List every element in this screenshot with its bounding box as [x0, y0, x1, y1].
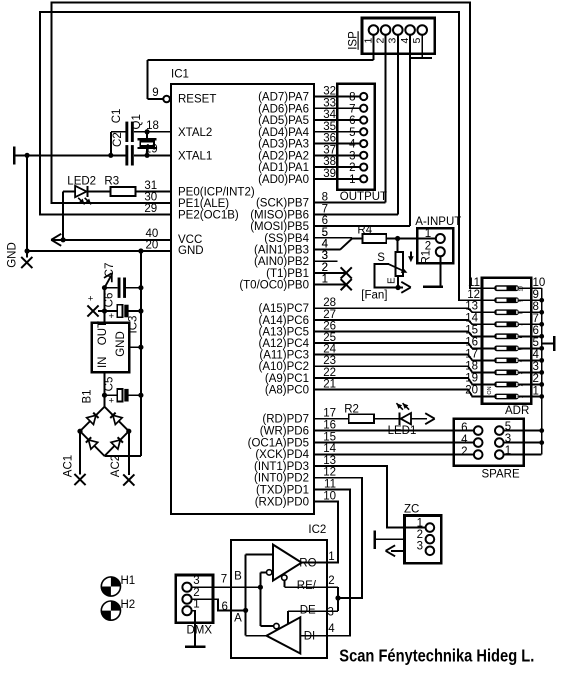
svg-text:(AD5)PA5: (AD5)PA5 — [258, 115, 309, 127]
svg-text:+: + — [88, 294, 94, 305]
svg-text:(AD4)PA4: (AD4)PA4 — [258, 127, 310, 139]
svg-text:(AIN1)PB3: (AIN1)PB3 — [254, 244, 309, 256]
svg-text:(A8)PC0: (A8)PC0 — [265, 384, 309, 396]
svg-text:GND: GND — [7, 242, 19, 268]
svg-text:4: 4 — [533, 349, 540, 361]
svg-text:4: 4 — [322, 238, 329, 250]
svg-text:10: 10 — [533, 277, 546, 289]
svg-text:27: 27 — [323, 309, 336, 321]
svg-text:25: 25 — [323, 332, 336, 344]
svg-text:(AD0)PA0: (AD0)PA0 — [258, 174, 309, 186]
svg-text:(A12)PC4: (A12)PC4 — [259, 338, 310, 350]
svg-text:E: E — [387, 277, 398, 284]
svg-text:19: 19 — [465, 372, 478, 384]
svg-text:IN: IN — [97, 357, 109, 369]
svg-text:5: 5 — [519, 347, 525, 350]
svg-text:AC2: AC2 — [110, 455, 122, 477]
svg-text:PE0(ICP/INT2): PE0(ICP/INT2) — [178, 187, 255, 199]
svg-text:RESET: RESET — [178, 94, 216, 106]
svg-text:(A11)PC3: (A11)PC3 — [259, 350, 309, 362]
svg-text:5: 5 — [349, 127, 355, 139]
svg-text:1: 1 — [193, 599, 199, 611]
svg-text:(INT1)PD3: (INT1)PD3 — [254, 461, 309, 473]
svg-text:DE: DE — [300, 605, 316, 617]
svg-text:SPARE: SPARE — [482, 468, 520, 480]
svg-text:1: 1 — [362, 38, 374, 44]
svg-text:4: 4 — [519, 359, 525, 362]
svg-text:11: 11 — [324, 479, 336, 491]
svg-text:IC3: IC3 — [128, 316, 140, 334]
svg-text:8: 8 — [533, 301, 539, 313]
svg-text:20: 20 — [146, 239, 159, 251]
svg-text:(MOSI)PB5: (MOSI)PB5 — [250, 221, 309, 233]
svg-text:IC2: IC2 — [308, 524, 326, 536]
svg-text:16: 16 — [323, 420, 336, 432]
svg-text:A-INPUT: A-INPUT — [415, 216, 461, 228]
svg-text:DI: DI — [304, 630, 316, 642]
svg-text:+: + — [109, 311, 115, 322]
svg-text:11: 11 — [468, 277, 480, 289]
svg-text:2: 2 — [322, 262, 328, 274]
svg-text:16: 16 — [465, 336, 478, 348]
svg-text:17: 17 — [323, 408, 336, 420]
svg-text:20: 20 — [465, 384, 478, 396]
svg-text:RO: RO — [299, 557, 316, 569]
svg-text:(TXD)PD1: (TXD)PD1 — [256, 485, 309, 497]
svg-text:4: 4 — [328, 623, 335, 635]
svg-text:DMX: DMX — [187, 625, 213, 637]
svg-text:(AD6)PA6: (AD6)PA6 — [258, 103, 309, 115]
svg-text:28: 28 — [323, 297, 336, 309]
svg-text:(SCK)PB7: (SCK)PB7 — [256, 198, 309, 210]
svg-text:ZC: ZC — [404, 504, 419, 516]
svg-text:C5: C5 — [104, 377, 116, 392]
svg-text:XTAL2: XTAL2 — [178, 127, 212, 139]
svg-text:(AD1)PA1: (AD1)PA1 — [258, 162, 309, 174]
svg-text:36: 36 — [323, 133, 336, 145]
svg-text:6: 6 — [322, 215, 328, 227]
svg-text:(A10)PC2: (A10)PC2 — [259, 361, 310, 373]
svg-text:(OC1A)PD5: (OC1A)PD5 — [248, 437, 309, 449]
svg-text:(AD2)PA2: (AD2)PA2 — [258, 150, 309, 162]
svg-text:(RD)PD7: (RD)PD7 — [262, 414, 309, 426]
svg-text:18: 18 — [465, 360, 478, 372]
svg-text:1: 1 — [322, 274, 328, 286]
svg-text:(A15)PC7: (A15)PC7 — [259, 303, 310, 315]
svg-text:C1: C1 — [111, 109, 123, 124]
svg-text:8: 8 — [349, 92, 355, 104]
svg-text:7: 7 — [322, 203, 328, 215]
svg-text:(A9)PC1: (A9)PC1 — [265, 373, 309, 385]
svg-text:ON: ON — [487, 386, 493, 394]
svg-text:[Fan]: [Fan] — [361, 290, 387, 302]
svg-text:R4: R4 — [357, 225, 372, 237]
svg-text:14: 14 — [465, 312, 478, 324]
svg-text:4: 4 — [461, 434, 468, 446]
svg-text:10: 10 — [323, 490, 336, 502]
svg-text:3: 3 — [322, 250, 328, 262]
svg-text:30: 30 — [144, 191, 157, 203]
svg-text:R2: R2 — [344, 403, 359, 415]
svg-text:8: 8 — [519, 311, 525, 314]
svg-text:1: 1 — [519, 395, 525, 398]
svg-text:33: 33 — [323, 97, 336, 109]
svg-text:4: 4 — [349, 139, 356, 151]
svg-text:3: 3 — [328, 607, 334, 619]
svg-text:4: 4 — [399, 38, 411, 44]
svg-text:23: 23 — [323, 355, 336, 367]
svg-text:3: 3 — [193, 575, 199, 587]
svg-text:(XCK)PD4: (XCK)PD4 — [255, 449, 309, 461]
svg-text:24: 24 — [323, 344, 336, 356]
svg-text:(WR)PD6: (WR)PD6 — [260, 426, 309, 438]
svg-text:29: 29 — [144, 203, 157, 215]
svg-text:+: + — [109, 395, 115, 406]
svg-text:2: 2 — [519, 383, 525, 386]
svg-text:6: 6 — [349, 115, 355, 127]
svg-text:ADR: ADR — [505, 405, 529, 417]
svg-text:1: 1 — [425, 228, 431, 240]
svg-text:5: 5 — [322, 227, 328, 239]
svg-text:PE1(ALE): PE1(ALE) — [178, 198, 229, 210]
svg-text:XTAL1: XTAL1 — [178, 150, 212, 162]
svg-text:LED2: LED2 — [67, 175, 96, 187]
svg-text:R3: R3 — [104, 175, 119, 187]
svg-text:13: 13 — [323, 455, 336, 467]
svg-text:32: 32 — [323, 86, 336, 98]
svg-text:C6: C6 — [104, 293, 116, 308]
svg-text:2: 2 — [461, 446, 467, 458]
svg-text:OUT: OUT — [97, 321, 109, 345]
svg-text:H1: H1 — [121, 575, 136, 587]
svg-text:S: S — [377, 252, 385, 264]
svg-text:21: 21 — [323, 378, 336, 390]
svg-text:10: 10 — [519, 286, 525, 292]
svg-text:40: 40 — [146, 228, 159, 240]
svg-text:IC1: IC1 — [171, 69, 189, 81]
svg-text:3: 3 — [519, 371, 525, 374]
svg-text:(INT0)PD2: (INT0)PD2 — [254, 473, 309, 485]
svg-text:PE2(OC1B): PE2(OC1B) — [178, 210, 239, 222]
svg-text:1: 1 — [417, 517, 423, 529]
svg-text:13: 13 — [465, 300, 478, 312]
svg-text:3: 3 — [349, 150, 355, 162]
svg-text:8: 8 — [322, 192, 328, 204]
svg-text:B: B — [234, 570, 242, 582]
svg-text:2: 2 — [193, 587, 199, 599]
svg-text:37: 37 — [323, 144, 336, 156]
svg-text:(T1)PB1: (T1)PB1 — [266, 268, 309, 280]
svg-text:(AIN0)PB2: (AIN0)PB2 — [254, 256, 309, 268]
svg-text:1: 1 — [533, 385, 539, 397]
svg-text:1: 1 — [328, 551, 334, 563]
svg-text:(SS)PB4: (SS)PB4 — [264, 233, 309, 245]
svg-text:38: 38 — [323, 156, 336, 168]
svg-text:ISP: ISP — [348, 31, 360, 50]
svg-text:VCC: VCC — [178, 234, 202, 246]
svg-text:RE/: RE/ — [297, 580, 317, 592]
svg-text:3: 3 — [417, 541, 423, 553]
svg-text:26: 26 — [323, 320, 336, 332]
svg-text:5: 5 — [411, 38, 423, 44]
svg-text:R1: R1 — [420, 250, 432, 265]
svg-text:34: 34 — [323, 109, 336, 121]
svg-text:A: A — [234, 613, 242, 625]
svg-text:(A13)PC5: (A13)PC5 — [259, 326, 310, 338]
svg-text:15: 15 — [465, 324, 478, 336]
svg-text:6: 6 — [222, 601, 228, 613]
svg-text:GND: GND — [178, 245, 204, 257]
svg-text:6: 6 — [533, 325, 539, 337]
svg-text:18: 18 — [146, 120, 159, 132]
svg-text:H2: H2 — [121, 599, 136, 611]
svg-text:B1: B1 — [82, 389, 94, 403]
svg-text:2: 2 — [328, 575, 334, 587]
svg-text:7: 7 — [221, 574, 227, 586]
svg-text:9: 9 — [152, 87, 158, 99]
svg-text:14: 14 — [323, 443, 336, 455]
svg-text:2: 2 — [533, 373, 539, 385]
svg-text:7: 7 — [533, 313, 539, 325]
svg-text:(AD7)PA7: (AD7)PA7 — [258, 92, 309, 104]
svg-text:(MISO)PB6: (MISO)PB6 — [250, 209, 309, 221]
svg-text:15: 15 — [323, 431, 336, 443]
svg-text:35: 35 — [323, 121, 336, 133]
svg-text:9: 9 — [519, 299, 525, 302]
svg-text:OUTPUT: OUTPUT — [340, 191, 387, 203]
svg-text:2: 2 — [349, 162, 355, 174]
svg-text:31: 31 — [144, 180, 157, 192]
svg-text:(T0/OC0)PB0: (T0/OC0)PB0 — [239, 280, 309, 292]
svg-text:3: 3 — [387, 38, 399, 44]
svg-text:(A14)PC6: (A14)PC6 — [259, 315, 310, 327]
svg-text:(RXD)PD0: (RXD)PD0 — [255, 496, 309, 508]
svg-text:6: 6 — [461, 422, 467, 434]
svg-text:22: 22 — [323, 367, 336, 379]
svg-text:5: 5 — [533, 337, 539, 349]
svg-text:12: 12 — [323, 467, 336, 479]
svg-text:3: 3 — [533, 361, 539, 373]
svg-text:C2: C2 — [112, 132, 124, 147]
svg-text:17: 17 — [465, 348, 478, 360]
svg-text:9: 9 — [533, 289, 539, 301]
svg-text:C7: C7 — [104, 263, 116, 278]
svg-text:1: 1 — [349, 174, 355, 186]
svg-text:GND: GND — [115, 331, 127, 357]
svg-text:2: 2 — [374, 38, 386, 44]
svg-text:2: 2 — [417, 529, 423, 541]
svg-text:7: 7 — [519, 323, 525, 326]
svg-text:AC1: AC1 — [62, 455, 74, 477]
svg-text:7: 7 — [349, 103, 355, 115]
svg-text:6: 6 — [519, 335, 525, 338]
svg-text:(AD3)PA3: (AD3)PA3 — [258, 139, 309, 151]
svg-text:Scan Fénytechnika Hideg L.: Scan Fénytechnika Hideg L. — [339, 646, 534, 666]
svg-text:39: 39 — [323, 168, 336, 180]
